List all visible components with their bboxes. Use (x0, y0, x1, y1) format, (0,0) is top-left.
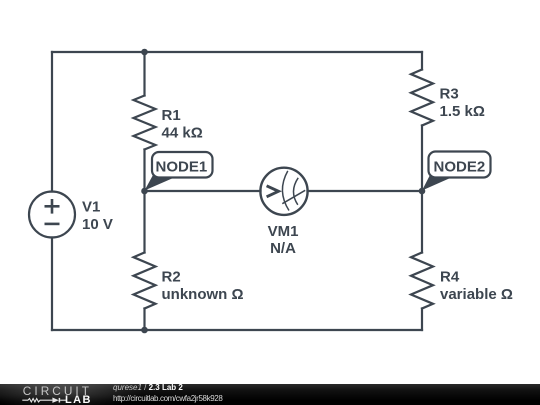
svg-text:44 kΩ: 44 kΩ (162, 125, 203, 142)
svg-text:VM1: VM1 (268, 223, 299, 240)
wire R2 top lead from NODE1 (143, 191, 145, 253)
wire R3 top lead (421, 52, 423, 70)
resistor R2 zigzag (134, 253, 156, 309)
wire R3 bottom lead to NODE2 (421, 126, 423, 192)
wire left lower (V1 bottom lead) (51, 238, 53, 331)
wire R2 bottom lead (143, 309, 145, 331)
wire R1 bottom lead to NODE1 (143, 150, 145, 192)
wire R1 top lead (143, 52, 145, 96)
junction node NODE1 (141, 188, 148, 195)
svg-text:R3: R3 (440, 86, 459, 103)
svg-text:N/A: N/A (270, 240, 296, 257)
svg-text:R1: R1 (162, 107, 181, 124)
svg-text:1.5 kΩ: 1.5 kΩ (440, 103, 485, 120)
junction node NODE2 (419, 188, 426, 195)
junction node at R2 bottom (141, 327, 148, 334)
svg-text:NODE1: NODE1 (156, 158, 208, 175)
node NODE2 flag box (429, 152, 491, 178)
node NODE2 flag tail (422, 175, 457, 191)
wire NODE1 to VM1 left terminal (145, 190, 261, 192)
voltmeter VM1 symbol (260, 168, 307, 215)
resistor R3 zigzag (411, 70, 433, 126)
svg-text:V1: V1 (82, 199, 100, 216)
svg-text:NODE2: NODE2 (434, 158, 486, 175)
resistor R4 zigzag (411, 253, 433, 309)
wire top-right segment (145, 51, 423, 53)
resistor R1 zigzag (134, 96, 156, 150)
logo resistor-diode glyph (0, 384, 70, 405)
node NODE1 flag box (152, 152, 213, 178)
footer text (112, 383, 114, 385)
svg-text:variable Ω: variable Ω (440, 286, 513, 303)
voltage source V1 symbol (29, 192, 75, 238)
CircuitLab logo (0, 384, 105, 405)
junction node at R1 top (141, 49, 148, 56)
wire top-left segment (52, 51, 145, 53)
svg-text:R2: R2 (162, 269, 181, 286)
wire VM1 right terminal to NODE2 (308, 190, 423, 192)
svg-text:R4: R4 (440, 269, 460, 286)
wire R4 bottom lead (421, 309, 423, 331)
wire bottom-right segment (145, 329, 423, 331)
svg-text:10 V: 10 V (82, 216, 113, 233)
svg-text:unknown Ω: unknown Ω (162, 286, 244, 303)
wire R4 top lead from NODE2 (421, 191, 423, 253)
wire bottom-left segment (52, 329, 145, 331)
wire left upper (V1 top lead) (51, 52, 53, 192)
node NODE1 flag tail (145, 175, 181, 191)
